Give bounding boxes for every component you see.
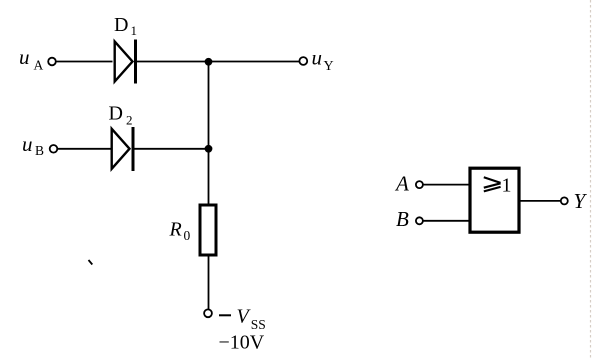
svg-text:2: 2 [126,113,133,128]
svg-text:1: 1 [502,175,512,197]
node uY label [312,46,334,75]
terminal -Vss [204,309,212,317]
svg-text:1: 1 [131,23,138,38]
label -Vss [219,306,266,332]
svg-text:u: u [22,132,33,156]
terminal B [416,217,423,224]
svg-text:SS: SS [251,317,266,332]
diode D2 [112,127,133,171]
svg-text:R: R [169,218,182,240]
node uB label [22,132,44,158]
diode D1 [115,40,136,84]
OR gate U1 box [470,168,519,232]
label D1 [114,14,137,38]
junction node 1 [205,58,213,66]
wire D1 cathode to output terminal [137,61,300,63]
svg-text:−10V: −10V [219,332,265,354]
svg-text:D: D [114,14,128,36]
terminal uY [299,57,307,65]
wire uA to D1 anode [56,61,112,63]
svg-text:B: B [35,143,44,158]
wire D2 cathode to junction 2 [135,148,209,150]
terminal A [416,181,423,188]
svg-text:u: u [312,46,323,70]
svg-text:A: A [34,58,44,73]
node uA label [19,45,44,73]
terminal uB [50,145,58,153]
resistor R0 [200,205,216,255]
vertical wire junction1 to resistor [208,62,210,204]
svg-text:D: D [109,103,123,125]
wire gate output to Y [519,200,561,202]
svg-text:Y: Y [574,189,588,213]
label R0 [169,218,191,243]
svg-text:0: 0 [184,228,191,243]
junction node 2 [205,145,213,153]
svg-text:A: A [394,171,409,195]
terminal uA [48,58,56,66]
svg-text:u: u [19,45,30,69]
svg-text:B: B [396,207,409,231]
terminal Y [561,197,568,204]
svg-text:Y: Y [324,59,334,74]
dashed page margin line [590,0,592,358]
svg-text:V: V [237,306,252,328]
OR gate >=1 symbol [484,177,501,191]
wire A to gate [423,184,469,186]
label D2 [109,103,133,128]
stray mark artifact [89,260,93,265]
wire B to gate [423,220,469,222]
wire uB to D2 anode [58,148,111,150]
wire resistor to -Vss terminal [208,257,210,310]
